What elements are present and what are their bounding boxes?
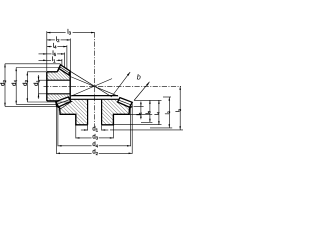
extension line wheel tooth tip corner right (134, 105, 144, 107)
extension line wheel hub bottom right (114, 124, 162, 126)
pinion hub back face (46, 72, 48, 101)
dimension line l4 right part (57, 46, 67, 48)
extension line for l5 (64, 53, 66, 68)
extension d3 left (hub wall) (75, 125, 77, 139)
dimension line l1 left with outside tail (39, 59, 52, 61)
dimension line d2 wheel right part (99, 152, 132, 154)
pinion lower tooth band (meshing) (56, 97, 71, 107)
l5 left arrow outside (43, 53, 47, 55)
dimension line l5 wheel (149, 100, 151, 122)
dimension line d3 wheel left part (76, 137, 92, 139)
b arrow inner (127, 72, 130, 76)
extension d4 right (pitch) (130, 107, 132, 146)
pinion bore top line (47, 79, 70, 81)
dimension line d1 wheel left tail (81, 129, 88, 131)
svg-text:d3: d3 (23, 80, 29, 86)
pinion hub top edge (47, 71, 58, 73)
pitch line inside right tooth band (119, 100, 131, 105)
svg-text:l5: l5 (52, 51, 56, 57)
dimension line l5 right part (57, 53, 65, 55)
d1 left outside arrow (84, 129, 88, 131)
svg-text:d3: d3 (92, 134, 98, 140)
dimension line l2 right part (61, 39, 71, 41)
pinion hub bottom edge (47, 100, 58, 102)
svg-text:l2: l2 (56, 37, 60, 43)
dimension line d2 wheel left part (56, 152, 91, 154)
wheel top face lower line (71, 98, 119, 100)
pinion bore bottom line (47, 93, 70, 95)
dimension line l2 left part (47, 39, 55, 41)
dimension line d4 wheel right part (99, 145, 131, 147)
pinion front face (69, 71, 71, 100)
extension line wheel tooth top right (163, 96, 171, 98)
pitch line inside lower tooth band (57, 100, 70, 105)
extension line d4 top (pitch) (16, 67, 61, 69)
svg-text:d4: d4 (92, 142, 98, 148)
extension line d3 top (hub) (27, 71, 47, 73)
extension line for l4 (tooth inner tip) (66, 45, 68, 69)
pinion hub hatch upper (47, 69, 70, 81)
extension d4 left (pitch) (57, 108, 59, 147)
l1 right arrow (58, 60, 62, 62)
wheel outline left: rim face, rim bottom, hub wall, hub bottom (57, 106, 88, 125)
svg-text:l4: l4 (53, 44, 57, 50)
extension line wheel rim bottom right (130, 113, 153, 115)
extension line wheel face right (134, 99, 162, 101)
pinion root cone line through apex to wheel right root (70, 77, 118, 97)
d1 upper outside arrow (38, 77, 40, 81)
dimension line l3 wheel (179, 86, 181, 130)
svg-text:d1: d1 (92, 126, 98, 132)
l1 upper outside arrow (140, 103, 142, 107)
dimension line d3 wheel right part (99, 137, 114, 139)
d1 right outside arrow (102, 129, 106, 131)
extension line wheel step right for l5 (141, 121, 152, 123)
wheel bore wall left (87, 99, 89, 125)
extension line l3 bottom right (110, 129, 183, 131)
pinion axis centerline (horizontal dash-dot) (44, 85, 182, 87)
extension line front face for l2 (69, 39, 71, 72)
dimension line l3 left part (47, 32, 66, 34)
svg-text:d2: d2 (92, 150, 98, 156)
tooth width b leader line inner (113, 72, 131, 96)
svg-text:d2: d2 (1, 80, 7, 86)
extension d3 right (hub wall) (112, 125, 114, 139)
extension line for l1 (tooth outer tip) (61, 59, 63, 66)
dimension line d1 pinion (outside arrows) (38, 75, 40, 99)
tooth width b leader line outer (134, 82, 150, 101)
l1 lower outside arrow (140, 114, 142, 118)
dimension line l4 left part (47, 46, 52, 48)
b arrow outer (146, 82, 149, 86)
dimension line l2 wheel (168, 97, 170, 128)
extension line d2 bottom (5, 105, 59, 107)
dimension line d1 wheel right tail (102, 129, 109, 131)
svg-text:d4: d4 (12, 80, 18, 86)
svg-text:l3: l3 (67, 30, 71, 36)
extension d1 left (bore wall) (87, 125, 89, 131)
wheel left root cone line through apex (71, 79, 112, 97)
extension line d1 bottom (bore) (39, 93, 48, 95)
d1 lower outside arrow (38, 94, 40, 98)
dimension line l4 wheel (158, 100, 160, 124)
pitch line inside upper tooth band (60, 67, 70, 73)
extension line d2 top (tooth tip) (5, 63, 60, 65)
wheel top face upper line (71, 95, 118, 97)
wheel left tooth root line below pinion tooth (59, 101, 72, 109)
wheel cross-section hatch right (102, 99, 130, 125)
wheel bore wall right (101, 99, 103, 125)
l5 right arrow (61, 53, 65, 55)
extension line l2 bottom right (150, 127, 172, 129)
dimension line d2 pinion (4, 64, 6, 107)
pinion back cone face upper (57, 69, 59, 72)
dimension line l1 wheel (140, 102, 142, 120)
wheel outline right: rim face, rim bottom, hub wall, hub bottom (102, 106, 133, 125)
wheel right tooth band (118, 98, 133, 108)
extension line back face for l3 l2 l4 l5 l1 (46, 31, 48, 71)
wheel axis centerline (vertical dash-dot) (94, 32, 96, 127)
dimension line l1 right part (57, 59, 62, 61)
pinion tip cone line through apex (70, 71, 112, 97)
dimension line d3 pinion (26, 72, 28, 102)
dimension line d4 wheel left part (58, 145, 92, 147)
dimension line l5 left with outside tail (39, 53, 52, 55)
svg-text:b: b (137, 73, 141, 82)
extension d2 right (tooth tip) (131, 102, 133, 154)
l1 left arrow outside (43, 60, 47, 62)
extension line d3 bottom (27, 101, 70, 103)
pinion upper tooth band (59, 65, 71, 75)
extension d2 left (tooth tip) (55, 107, 57, 154)
wheel cross-section hatch left (58, 99, 88, 125)
dimension line l3 right part (73, 32, 95, 34)
extension d1 right (bore wall) (101, 125, 103, 131)
pinion root to front face connector (69, 75, 71, 77)
svg-text:l1: l1 (52, 57, 56, 63)
extension line d1 top (bore) (39, 79, 48, 81)
pinion hub hatch lower (47, 94, 70, 101)
wheel left tooth tip corner (56, 102, 59, 107)
extension line d4 bottom (16, 103, 57, 105)
dimension line d4 pinion (15, 68, 17, 105)
